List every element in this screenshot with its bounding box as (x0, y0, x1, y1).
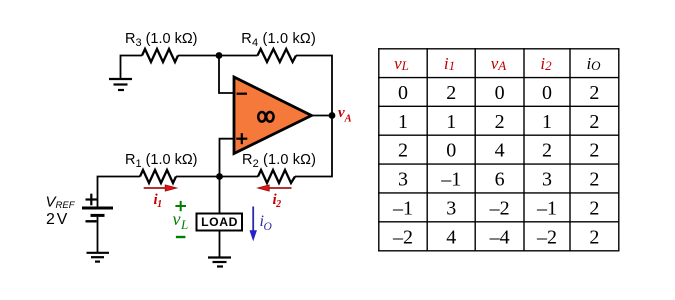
svg-text:R4 (1.0 kΩ): R4 (1.0 kΩ) (241, 31, 315, 49)
current arrow iO (blue) (250, 207, 257, 241)
wire: from node vA down and left to R2 (295, 116, 332, 177)
svg-text:1: 1 (542, 111, 552, 133)
svg-text:–1: –1 (440, 169, 461, 191)
wire: LOAD box to ground (219, 231, 221, 257)
svg-text:2: 2 (589, 140, 599, 162)
svg-text:VREF: VREF (46, 194, 76, 211)
wire: top rail left segment from ground stub to R3 (121, 56, 143, 79)
wire: battery bottom to ground (97, 217, 99, 252)
battery positive plate (82, 207, 113, 210)
svg-text:2: 2 (589, 82, 599, 104)
svg-text:2: 2 (542, 140, 552, 162)
svg-text:i2: i2 (273, 192, 282, 210)
op-amp plus input sign (236, 138, 247, 140)
svg-text:iO: iO (586, 54, 601, 73)
wire: bottom rail between R1 and R2 (176, 176, 258, 178)
resistor R1 (140, 170, 176, 183)
node A junction dot (R3/R4/inverting input) (216, 52, 223, 59)
wire: feedback from node A down to inverting input (219, 56, 234, 94)
load voltage minus sign (green) (176, 236, 186, 238)
svg-text:vA: vA (338, 105, 352, 125)
op-amp minus input sign (237, 93, 248, 95)
op-amp infinity symbol (258, 112, 265, 122)
table: measured values grid (378, 48, 619, 251)
svg-text:vL: vL (173, 209, 189, 232)
table header labels (394, 54, 601, 73)
battery VREF (82, 177, 140, 253)
svg-text:3: 3 (446, 197, 456, 219)
svg-text:–2: –2 (536, 226, 557, 248)
svg-text:iO: iO (260, 213, 273, 233)
svg-text:0: 0 (495, 82, 505, 104)
svg-text:6: 6 (495, 169, 505, 191)
svg-text:2: 2 (589, 169, 599, 191)
svg-text:3: 3 (398, 169, 408, 191)
wire: battery top to bottom rail (98, 177, 141, 207)
current arrow i1 (144, 185, 177, 191)
ground G3 (load) (208, 258, 231, 267)
svg-text:V: V (57, 211, 68, 228)
svg-text:2: 2 (589, 226, 599, 248)
wire: op-amp output to node vA (312, 115, 333, 117)
svg-text:2: 2 (589, 111, 599, 133)
wire: load node down to LOAD box (219, 177, 221, 214)
svg-text:0: 0 (542, 82, 552, 104)
resistor R4 (258, 49, 297, 62)
svg-text:–2: –2 (489, 197, 510, 219)
svg-text:2: 2 (398, 140, 408, 162)
svg-text:–2: –2 (392, 226, 413, 248)
svg-text:R2 (1.0 kΩ): R2 (1.0 kΩ) (242, 152, 316, 170)
svg-text:R3 (1.0 kΩ): R3 (1.0 kΩ) (125, 31, 198, 49)
svg-text:i2: i2 (540, 54, 552, 73)
current arrow i2 (258, 185, 292, 191)
svg-text:2: 2 (495, 111, 505, 133)
ground G1 (top-left) (109, 79, 132, 90)
svg-text:–4: –4 (489, 226, 510, 248)
svg-text:3: 3 (542, 169, 552, 191)
wire: from bottom node up to non-inverting input (220, 139, 235, 177)
resistor R2 (258, 170, 295, 183)
resistor R3 (142, 49, 178, 62)
node vA dot (329, 112, 336, 119)
table data values (392, 82, 599, 248)
svg-text:vL: vL (394, 54, 409, 73)
svg-text:–1: –1 (392, 197, 413, 219)
wire: top rail right of R4 down to output node (296, 56, 332, 116)
node B junction dot (load node) (216, 173, 223, 180)
svg-text:i1: i1 (444, 54, 455, 73)
svg-text:4: 4 (446, 226, 456, 248)
battery minus sign (86, 220, 97, 222)
svg-text:2: 2 (589, 197, 599, 219)
battery plus sign (86, 198, 98, 200)
svg-text:–1: –1 (536, 197, 557, 219)
svg-text:2: 2 (446, 82, 456, 104)
wire: top rail between R3 and R4 (178, 55, 258, 57)
svg-text:i1: i1 (154, 192, 163, 210)
battery negative plate (91, 214, 105, 217)
svg-text:vA: vA (491, 54, 507, 73)
svg-text:0: 0 (446, 140, 456, 162)
svg-text:0: 0 (398, 82, 408, 104)
svg-text:R1 (1.0 kΩ): R1 (1.0 kΩ) (125, 152, 198, 170)
svg-text:2: 2 (46, 211, 55, 228)
svg-text:LOAD: LOAD (201, 215, 237, 229)
LOAD box (197, 214, 243, 231)
ground G2 (battery) (87, 253, 110, 262)
svg-text:4: 4 (495, 140, 505, 162)
svg-text:1: 1 (446, 111, 456, 133)
op-amp U1 (ideal, infinity gain) (234, 77, 312, 154)
load voltage plus sign (green) (175, 201, 186, 211)
svg-text:1: 1 (398, 111, 408, 133)
